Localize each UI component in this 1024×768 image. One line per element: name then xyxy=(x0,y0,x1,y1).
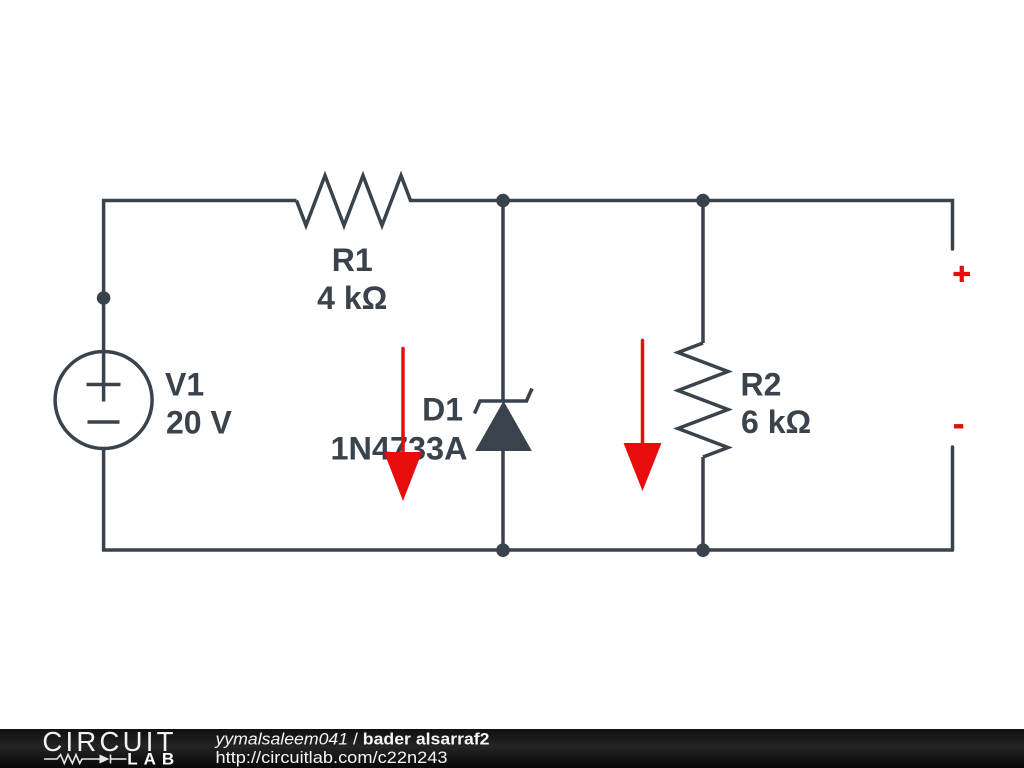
junction node (top of R2) xyxy=(696,194,710,208)
resistor R1 xyxy=(297,176,411,226)
wire top-right segment xyxy=(411,201,953,250)
wire R2 branch lower xyxy=(701,457,705,550)
footer bar xyxy=(0,729,1024,768)
wire top-left segment xyxy=(104,201,297,352)
zener diode D1 xyxy=(475,389,533,451)
current arrow through R2 xyxy=(624,341,662,492)
wire R2 branch upper xyxy=(701,201,705,344)
junction node (bottom of D1) xyxy=(496,543,510,557)
svg-text:http://circuitlab.com/c22n243: http://circuitlab.com/c22n243 xyxy=(216,749,448,767)
svg-text:V1: V1 xyxy=(165,366,204,402)
junction node (left wire above V1) xyxy=(97,291,111,305)
voltage source V1 xyxy=(55,352,152,449)
wire D1 branch lower xyxy=(501,450,505,550)
wire D1 branch upper xyxy=(501,201,505,401)
terminal + (positive output) xyxy=(954,266,971,282)
svg-text:R2: R2 xyxy=(741,366,782,402)
svg-text:LAB: LAB xyxy=(127,750,180,768)
wire bottom segment xyxy=(104,449,953,551)
logo resistor-diode doodle xyxy=(44,755,127,764)
svg-text:R1: R1 xyxy=(332,242,373,278)
current arrow through D1 xyxy=(384,349,422,502)
wire right vertical lower (from - terminal) xyxy=(951,447,955,550)
junction node (bottom of R2) xyxy=(696,543,710,557)
svg-text:yymalsaleem041 / bader alsarra: yymalsaleem041 / bader alsarraf2 xyxy=(214,730,489,748)
junction node (top of D1) xyxy=(496,194,510,208)
resistor R2 xyxy=(678,343,728,457)
svg-text:6 kΩ: 6 kΩ xyxy=(741,404,811,440)
terminal - (negative output) xyxy=(954,424,963,428)
svg-text:D1: D1 xyxy=(422,391,463,427)
svg-text:4 kΩ: 4 kΩ xyxy=(317,280,387,316)
svg-text:20 V: 20 V xyxy=(166,405,232,441)
